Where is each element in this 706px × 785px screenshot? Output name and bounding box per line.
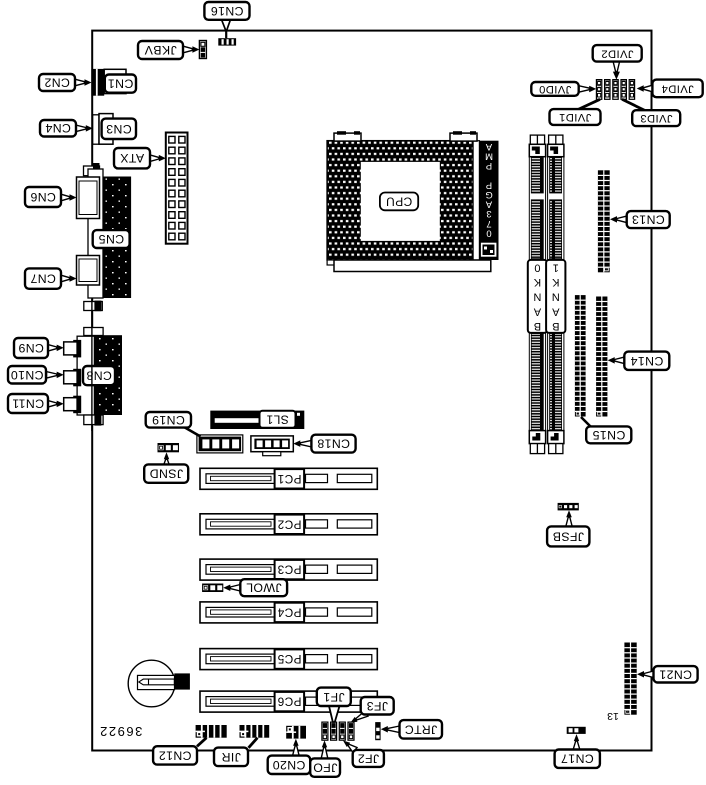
svg-text:3: 3 (486, 208, 491, 219)
svg-text:PC6: PC6 (277, 695, 301, 709)
svg-text:CN11: CN11 (12, 397, 44, 411)
svg-text:PC3: PC3 (277, 563, 301, 577)
svg-text:PC2: PC2 (277, 517, 301, 531)
svg-text:JF2: JF2 (357, 751, 379, 765)
svg-text:CN13: CN13 (632, 213, 665, 227)
svg-text:A: A (533, 305, 541, 317)
svg-text:CN8: CN8 (86, 369, 112, 383)
svg-text:PC5: PC5 (277, 652, 301, 666)
svg-text:JF1: JF1 (323, 690, 345, 704)
svg-text:CN10: CN10 (10, 368, 43, 382)
svg-text:CN17: CN17 (561, 752, 594, 766)
svg-text:JRTC: JRTC (404, 722, 437, 736)
svg-text:M: M (485, 151, 493, 162)
svg-text:JVID4: JVID4 (661, 82, 693, 94)
svg-text:CN2: CN2 (44, 76, 70, 90)
svg-text:36922: 36922 (99, 724, 143, 739)
svg-text:JVID2: JVID2 (601, 47, 633, 59)
svg-text:CN6: CN6 (30, 190, 56, 204)
svg-text:JVID0: JVID0 (539, 83, 571, 95)
svg-text:JFO: JFO (313, 761, 337, 775)
svg-text:CN5: CN5 (98, 232, 124, 246)
svg-text:JKBV: JKBV (144, 43, 177, 57)
svg-text:JFSB: JFSB (552, 529, 584, 543)
svg-text:PC4: PC4 (277, 605, 301, 619)
svg-text:CN7: CN7 (30, 272, 56, 286)
svg-text:B: B (552, 320, 559, 332)
svg-text:7: 7 (486, 218, 491, 229)
svg-text:A: A (485, 199, 492, 210)
svg-text:CN14: CN14 (630, 354, 663, 368)
svg-text:CN21: CN21 (659, 667, 692, 681)
svg-text:SL1: SL1 (266, 412, 289, 426)
svg-text:A: A (551, 305, 559, 317)
svg-text:CN3: CN3 (106, 122, 132, 136)
svg-text:0: 0 (486, 227, 491, 238)
svg-text:13: 13 (607, 710, 619, 722)
svg-text:P: P (486, 160, 492, 171)
svg-text:CN18: CN18 (317, 437, 350, 451)
svg-text:CPU: CPU (386, 194, 413, 208)
svg-text:1: 1 (553, 262, 559, 274)
svg-text:P: P (486, 179, 492, 190)
svg-text:JVID3: JVID3 (640, 112, 672, 124)
svg-text:CN9: CN9 (18, 341, 44, 355)
svg-text:JWOL: JWOL (246, 581, 282, 595)
svg-text:CN12: CN12 (158, 748, 191, 762)
svg-text:N: N (552, 291, 560, 303)
svg-text:CN20: CN20 (272, 758, 305, 772)
svg-text:0: 0 (534, 262, 540, 274)
svg-text:CN1: CN1 (107, 77, 133, 91)
svg-text:CN19: CN19 (152, 413, 185, 427)
svg-text:JSND: JSND (149, 467, 183, 481)
svg-text:K: K (533, 276, 541, 288)
svg-text:PC1: PC1 (277, 472, 301, 486)
svg-text:K: K (551, 276, 559, 288)
svg-text:CN15: CN15 (592, 428, 625, 442)
svg-text:N: N (533, 291, 541, 303)
svg-text:A: A (485, 141, 492, 152)
svg-text:G: G (485, 189, 492, 200)
svg-text:ATX: ATX (120, 151, 144, 165)
svg-text:JF3: JF3 (366, 699, 388, 713)
svg-text:CN4: CN4 (45, 121, 71, 135)
svg-text:CN16: CN16 (210, 4, 243, 18)
svg-text:JIR: JIR (221, 750, 241, 764)
svg-text:B: B (534, 320, 541, 332)
svg-text:JVID1: JVID1 (559, 111, 591, 123)
